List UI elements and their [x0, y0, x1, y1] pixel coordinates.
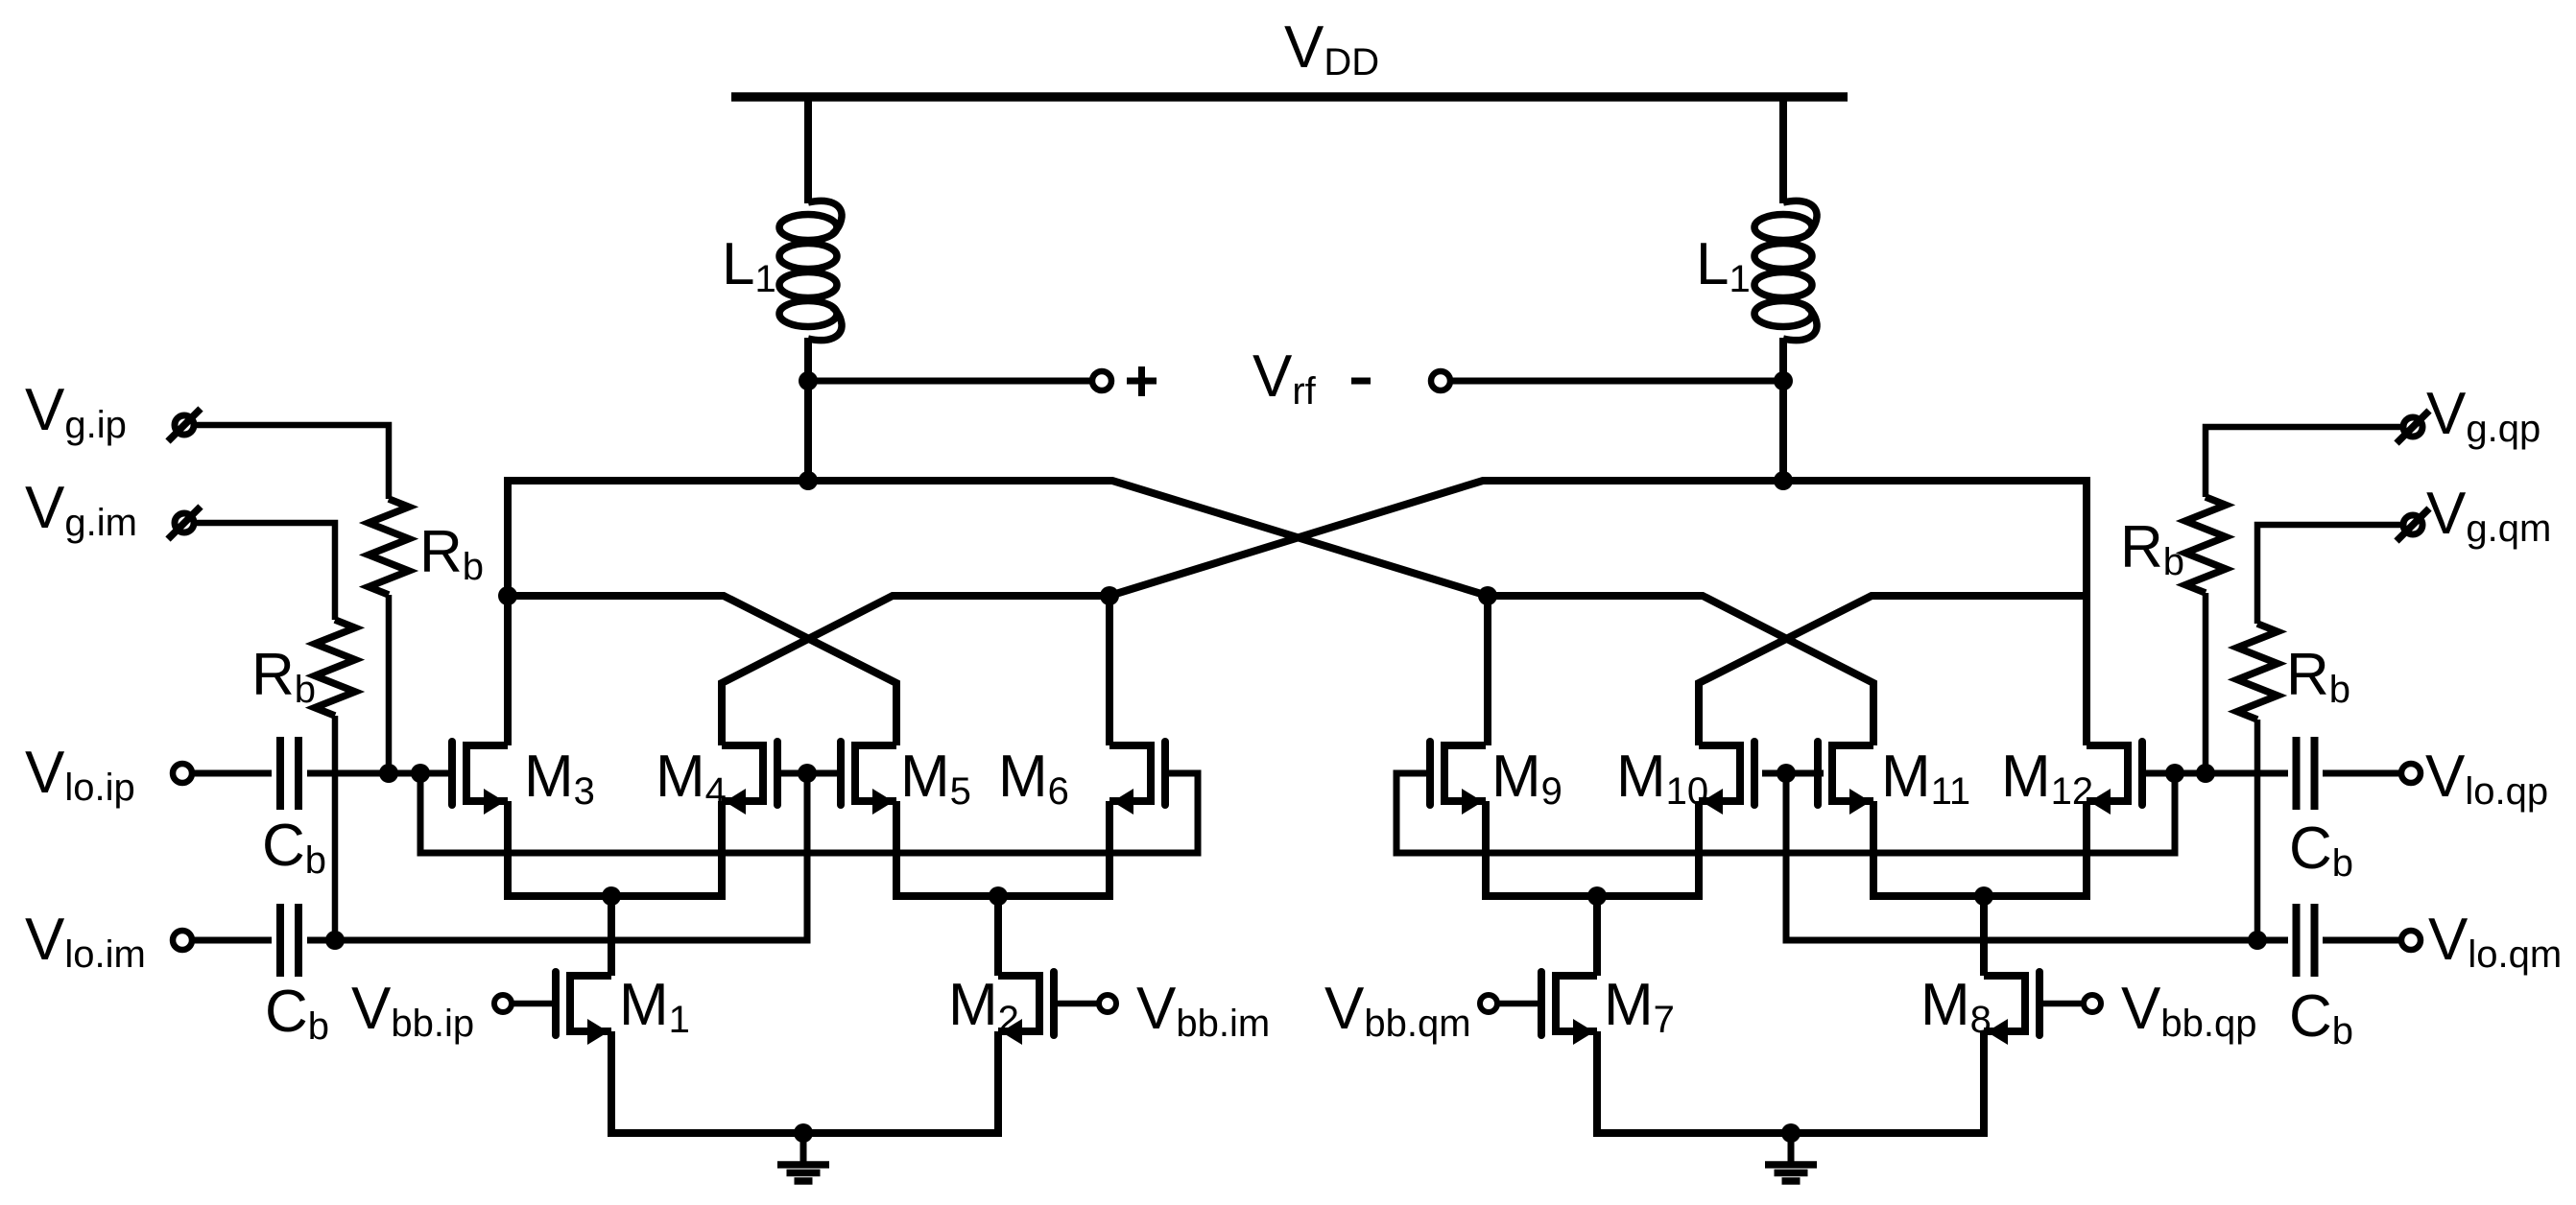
wire: M1/M2 tail rail [611, 1031, 998, 1133]
transistor M4 [722, 742, 777, 815]
wire: M7/M8 tail rail [1597, 1031, 1984, 1133]
node [989, 886, 1008, 906]
wire [2323, 937, 2401, 944]
node [1478, 586, 1497, 605]
resistor Rb (qm) [2237, 624, 2278, 720]
wire [2206, 427, 2404, 497]
capacitor Cb (lo.qp) [2297, 737, 2315, 810]
terminal Vrf- [1431, 371, 1450, 390]
wire: M9 drain [1484, 596, 1491, 745]
power rail VDD [731, 92, 1848, 102]
wire: M3 drain / left output rail to cross-over [508, 481, 1488, 745]
capacitor Cb (lo.qm) [2297, 904, 2315, 977]
transistor M1 [556, 972, 611, 1045]
node [2196, 764, 2215, 783]
wire [2040, 1001, 2084, 1007]
node [411, 764, 430, 783]
wire [2257, 525, 2404, 624]
transistor M7 [1541, 972, 1597, 1045]
node [2165, 764, 2184, 783]
wire: LO.qp routing to M9 gate [1396, 773, 2175, 853]
wire [2203, 593, 2209, 773]
wire [1779, 381, 1787, 481]
node [794, 1123, 813, 1143]
wire [332, 716, 339, 940]
node: RF+ output [799, 371, 818, 390]
ground (right) [1765, 1133, 1817, 1181]
terminal Vg.qm [2397, 508, 2429, 541]
transistor M8 [1984, 972, 2039, 1045]
wire: M3/M5 drain tie [508, 596, 896, 745]
resistor Rb (im) [315, 620, 355, 716]
node [379, 764, 398, 783]
inductor L1 (right) [1754, 201, 1817, 340]
node: RF- output [1774, 371, 1793, 390]
wire [193, 523, 335, 620]
terminal Vlo.qp [2401, 764, 2421, 783]
wire: M6 drain [1106, 596, 1113, 745]
wire [804, 381, 812, 481]
wire [512, 1001, 556, 1007]
node [498, 586, 517, 605]
wire: M4-M5 gate tie [778, 770, 840, 777]
ground (left) [777, 1133, 829, 1181]
node [602, 886, 621, 906]
resistor Rb (ip) [369, 499, 409, 595]
wire [804, 97, 812, 203]
node [1587, 886, 1607, 906]
wire [191, 937, 272, 944]
wire: M1 drain [608, 896, 615, 976]
wire: M9/M10 source rail [1486, 801, 1699, 896]
node [799, 471, 818, 490]
wire [1055, 1001, 1099, 1007]
label + [1127, 366, 1157, 396]
wire [1779, 338, 1787, 381]
wire: M8 drain [1980, 896, 1988, 976]
terminal Vlo.im [173, 931, 192, 950]
wire [808, 378, 1092, 385]
wire: M11/M12 source rail [1873, 801, 2087, 896]
transistor M11 [1818, 742, 1873, 815]
wire [193, 425, 389, 499]
node [1777, 764, 1796, 783]
wire [307, 773, 807, 940]
terminal Vbb.qm [1480, 995, 1497, 1012]
terminal Vg.qp [2397, 411, 2429, 443]
wire: M10/M12 drain tie [1699, 596, 2087, 745]
terminal Vbb.ip [494, 995, 512, 1012]
node [1974, 886, 1993, 906]
node [798, 764, 817, 783]
transistor M2 [998, 972, 1054, 1045]
node [325, 931, 345, 950]
transistor M6 [1109, 742, 1165, 815]
label minus [1351, 378, 1371, 385]
node [2248, 931, 2267, 950]
wire [1779, 97, 1787, 203]
terminal Vbb.im [1099, 995, 1116, 1012]
wire: M5/M6 source rail [896, 801, 1109, 896]
capacitor Cb (lo.im) [280, 904, 298, 977]
wire [1450, 378, 1783, 385]
wire [386, 595, 393, 773]
wire [1497, 1001, 1541, 1007]
wire: M10-M11 gate tie [1762, 770, 1824, 777]
wire [804, 338, 812, 381]
transistor M12 [2087, 742, 2142, 815]
wire [2254, 720, 2261, 940]
resistor Rb (qp) [2185, 497, 2226, 593]
transistor M5 [841, 742, 896, 815]
terminal Vlo.ip [173, 764, 192, 783]
wire: M3/M4 source rail [508, 801, 722, 896]
wire [2142, 770, 2288, 777]
wire: LO.ip routing to M6 gate [420, 773, 1198, 853]
node [1774, 471, 1793, 490]
node [1781, 1123, 1801, 1143]
wire: LO.qm line [1786, 773, 2288, 940]
transistor M3 [452, 742, 508, 815]
wire: M2 drain [994, 896, 1002, 976]
wire: M7 drain [1593, 896, 1601, 976]
terminal Vrf+ [1092, 371, 1111, 390]
wire: cross-over to right output rail / M12 drain [1109, 481, 2087, 745]
transistor M10 [1699, 742, 1754, 815]
terminal Vg.ip [168, 409, 201, 441]
wire [2323, 770, 2401, 777]
wire: M4/M6 drain tie crossing to right rail [722, 596, 1109, 745]
transistor M9 [1430, 742, 1486, 815]
node [1100, 586, 1119, 605]
capacitor Cb (lo.ip) [280, 737, 298, 810]
wire: M9/M11 drain tie [1488, 596, 1873, 745]
wire [191, 770, 272, 777]
inductor L1 (left) [779, 201, 842, 340]
terminal Vbb.qp [2084, 995, 2101, 1012]
wire [307, 770, 448, 777]
terminal Vlo.qm [2401, 931, 2421, 950]
terminal Vg.im [168, 507, 201, 539]
